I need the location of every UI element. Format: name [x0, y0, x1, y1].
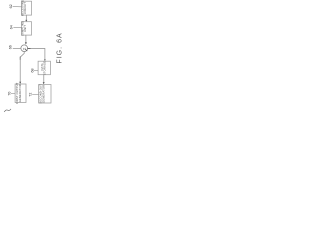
wire mixer to B3 (right, elbow) — [28, 49, 45, 60]
svg-text:GENERATOR: GENERATOR — [42, 85, 46, 103]
input wire into mixer — [13, 47, 21, 49]
leader wire to B5 — [32, 94, 38, 96]
box B2 (second) — [22, 22, 32, 35]
svg-text:STORAGE: STORAGE — [42, 61, 46, 75]
arrowhead into B3 — [44, 59, 46, 61]
wire B2 to mixer — [25, 35, 27, 43]
svg-text:70: 70 — [7, 92, 11, 96]
arrowhead into mixer — [25, 42, 27, 44]
leader wire to B2 — [13, 27, 21, 29]
dark arc accent lower-right of mixer — [25, 49, 27, 51]
leader wire to B3 — [34, 69, 38, 71]
leader wire to B1 — [13, 6, 22, 8]
arrowhead into B4 — [19, 82, 21, 84]
wire mixer to B4 (down with jog) — [20, 51, 24, 82]
box B1 (top) — [22, 1, 32, 15]
wire B3 to B5 — [43, 75, 45, 83]
arrowhead into B5 — [43, 82, 45, 84]
darker jog at top of down-wire — [19, 57, 21, 60]
svg-text:CIRCUIT: CIRCUIT — [23, 2, 27, 14]
darker junction at mixer output — [27, 48, 30, 50]
box B5 (bottom right) — [39, 85, 51, 104]
svg-text:72: 72 — [29, 93, 33, 97]
box B3 (right middle) — [38, 61, 50, 74]
leader wire to B4 — [11, 93, 15, 95]
wire B1 to B2 — [25, 15, 27, 20]
arrowhead into B2 — [25, 20, 27, 22]
squiggle mark bottom left — [4, 109, 11, 112]
background — [0, 0, 64, 120]
svg-text:64: 64 — [9, 25, 13, 29]
svg-text:62: 62 — [9, 4, 13, 8]
svg-text:GENERATOR: GENERATOR — [18, 84, 22, 102]
svg-text:66: 66 — [8, 45, 12, 49]
svg-text:UNIT: UNIT — [23, 25, 27, 32]
svg-text:FIG. 6A: FIG. 6A — [57, 33, 64, 64]
mixer circle M1 — [21, 45, 28, 52]
box B4 (bottom left) — [15, 84, 26, 103]
